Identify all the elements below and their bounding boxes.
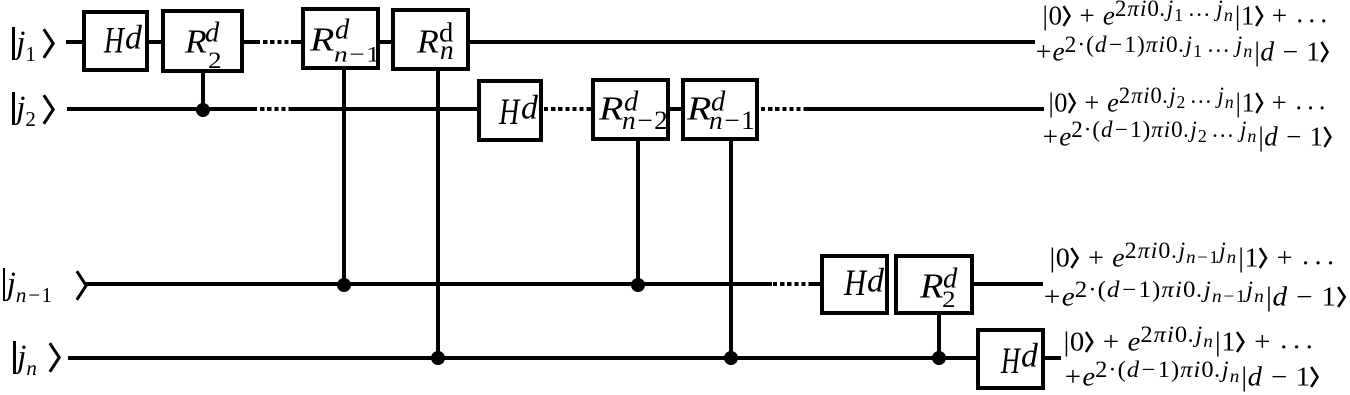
control wire R2-row1 to row2 [201,72,205,112]
wire row4 left solid [68,356,977,360]
wire row1 long output wire [470,40,1035,44]
wire row2 dotted H to Rn-2 [544,107,592,111]
wire row2 solid to H [291,107,478,111]
gate H^d row3 [820,254,889,315]
output text row4 line2 [1063,358,1320,391]
output text row2 line1 [1047,84,1329,117]
control wire Rn-row1 to row4 [436,70,440,361]
gate R_{n-2}^d row2 [591,78,670,141]
control dot on row4 (from R2 row3) [932,351,946,365]
wire row2 dotted segment [253,107,291,111]
control dot on row2 (from R2 row1) [196,103,210,117]
wire row1 solid before Rn-1 [291,40,302,44]
gate R_{n-1}^d row2 [681,78,759,141]
gate H^d row4 [976,328,1045,390]
ket label |jn> [13,341,61,374]
control dot on row3 (from Rn-1 row1) [337,278,351,292]
control wire Rn-1-row1 to row3 [342,69,346,287]
output text row3 line2 [1042,278,1346,311]
wire row2 solid to output [807,107,1044,111]
output text row3 line1 [1048,239,1338,272]
output text row2 line2 [1041,118,1332,151]
wire row3 dotted segment [773,282,809,286]
control wire Rn-2-row2 to row3 [636,141,640,287]
output text row1 line2 [1034,33,1329,66]
output text row1 line1 [1041,0,1331,30]
wire row1 dotted segment [256,40,292,44]
wire row4 output stub [1045,356,1061,360]
gate H^d row1 [82,10,149,72]
wire row2 left solid [67,107,253,111]
control wire Rn-1-row2 to row4 [729,141,733,361]
gate H^d row2 [477,79,543,142]
wire row1 H-R2 connector [148,40,162,44]
wire row1 Rn-1 to Rn connector [380,40,392,44]
gate R_n^d row1 [391,8,470,71]
control dot on row4 (from Rn row1) [431,351,445,365]
wire row3 output wire [974,282,1043,286]
wire row2 dotted after Rn-1 [761,107,807,111]
ket label |j2> [12,92,55,125]
ket label |j_{n-1}> [3,268,88,301]
control wire R2-row3 to row4 [937,315,941,361]
wire row3 left solid [85,282,772,286]
gate R_2^d row1 [161,9,244,73]
control dot on row3 (from Rn-2 row2) [631,278,645,292]
ket label |j1> [12,27,55,60]
wire row1 solid after R2 [244,40,256,44]
wire row2 Rn-2 to Rn-1 connector [670,107,681,111]
gate R_2^d row3 [894,254,974,315]
wire row3 solid to H [809,282,821,286]
gate R_{n-1}^d row1 [301,7,380,70]
control dot on row4 (from Rn-1 row2) [724,351,738,365]
output text row4 line1 [1062,323,1317,356]
wire row1 input stub [66,40,82,44]
